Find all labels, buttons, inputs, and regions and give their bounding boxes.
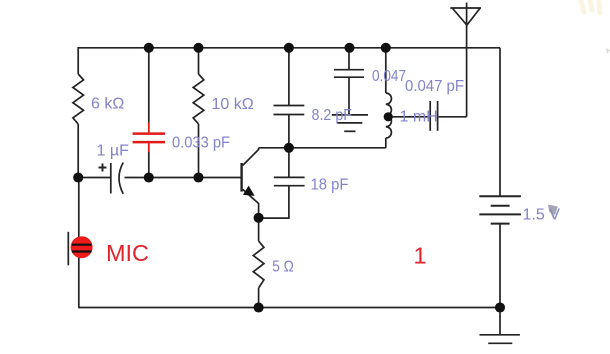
svg-text:0.047 pF: 0.047 pF: [405, 78, 464, 95]
node dots: [73, 43, 505, 313]
battery B1 plates: [479, 195, 521, 197]
wire 8.2pF bottom: [288, 115, 290, 148]
wire inductor top: [385, 48, 387, 93]
wire base segment right of C1: [125, 177, 241, 179]
svg-text:18 pF: 18 pF: [311, 177, 349, 194]
wire top rail: [78, 47, 500, 49]
capacitor C4 18pF plates: [274, 176, 305, 178]
capacitor C1 1uF plates: [110, 163, 112, 194]
wire antenna mast: [466, 3, 468, 117]
capacitor C3 8.2pF plates: [274, 105, 305, 107]
resistor R3 5ohm zigzag: [253, 241, 264, 288]
inductor L1 coil: [386, 93, 392, 138]
resistor R2 10k zigzag: [193, 74, 204, 124]
svg-text:MIC: MIC: [106, 240, 149, 266]
transistor Q1 emitter diagonal: [243, 189, 259, 218]
wire 5ohm bottom: [258, 288, 260, 308]
wire 0.047 cap top: [348, 48, 350, 70]
microphone MIC body: [71, 236, 93, 258]
cursor blob over V: [548, 205, 558, 215]
value labels: [91, 68, 560, 276]
faint smudge top right: [581, 0, 600, 13]
svg-text:1 mH: 1 mH: [400, 109, 438, 126]
svg-text:0.047: 0.047: [372, 68, 406, 85]
wire branch 10k top: [198, 48, 200, 74]
ground G2: [480, 334, 520, 336]
transistor Q1 emitter arrow: [244, 187, 254, 196]
wire inductor bottom: [385, 138, 387, 148]
wire right vertical upper: [499, 48, 501, 196]
wire 8.2pF top: [288, 48, 290, 106]
capacitor C5 0.047 plates: [334, 69, 364, 71]
wire emitter to 5ohm: [258, 218, 260, 241]
antenna ANT triangle: [450, 8, 481, 25]
svg-text:8.2 pF: 8.2 pF: [312, 107, 353, 124]
wire branch 10k bottom: [198, 124, 200, 178]
wire left vertical mid: [77, 124, 79, 178]
wire cap to antenna line: [439, 116, 467, 118]
svg-text:1: 1: [414, 243, 427, 269]
resistor R1 6k zigzag: [73, 74, 84, 124]
wire 18pF top: [288, 148, 290, 178]
wire collector horizontal: [259, 147, 386, 149]
svg-text:0.033 pF: 0.033 pF: [172, 135, 230, 152]
transistor Q1 base bar: [240, 163, 242, 192]
wire base segment left: [78, 177, 111, 179]
wire left vertical lower through mic: [78, 178, 80, 308]
wire 18pF bottom L to emitter: [259, 186, 289, 218]
transistor Q1 collector diagonal: [243, 148, 259, 166]
wire tap to cap: [387, 116, 428, 118]
wire 0.047 cap to ground: [348, 77, 350, 115]
microphone MIC bracket: [67, 232, 69, 265]
wire right vertical lower: [499, 224, 501, 308]
wire branch Vdiv cap bottom: [148, 152, 150, 178]
capacitor C2 0.033pF red: [133, 122, 165, 152]
wire ground stub: [499, 308, 501, 335]
wire branch Vdiv cap top: [148, 48, 150, 123]
wire left vertical upper: [77, 47, 79, 74]
ground G1: [332, 114, 368, 116]
svg-text:6 kΩ: 6 kΩ: [91, 96, 124, 113]
capacitor C6 0.047pF plates: [429, 101, 431, 131]
wire bottom rail: [78, 307, 500, 309]
svg-text:5 Ω: 5 Ω: [272, 259, 294, 276]
svg-text:1 µF: 1 µF: [97, 143, 130, 160]
svg-text:10 kΩ: 10 kΩ: [212, 96, 254, 113]
